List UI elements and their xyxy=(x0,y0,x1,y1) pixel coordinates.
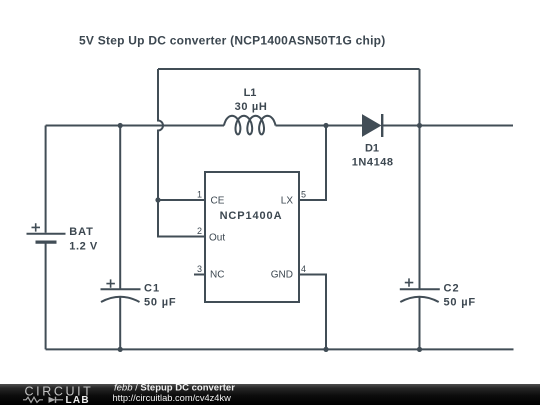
svg-text:C1: C1 xyxy=(144,283,160,295)
svg-text:CE: CE xyxy=(211,195,225,206)
svg-text:http://circuitlab.com/cv4z4kw: http://circuitlab.com/cv4z4kw xyxy=(113,393,232,403)
junction node: CE/Out tie point xyxy=(155,197,160,202)
wire: C2 bottom to ground rail xyxy=(419,297,421,349)
svg-text:50 µF: 50 µF xyxy=(144,297,176,309)
battery + polarity sign xyxy=(32,223,41,231)
wire: bottom ground rail xyxy=(46,348,514,350)
svg-text:D1: D1 xyxy=(365,143,379,155)
svg-text:50 µF: 50 µF xyxy=(444,297,476,309)
svg-text:GND: GND xyxy=(271,270,293,281)
wire: diode cathode to +5V output stub xyxy=(382,125,513,127)
svg-text:BAT: BAT xyxy=(69,226,93,238)
wire: GND pin 4 right then down to ground rail xyxy=(299,275,326,350)
wire: LX pin 5 up to inductor-diode node xyxy=(299,126,326,201)
svg-text:NCP1400A: NCP1400A xyxy=(220,210,283,222)
svg-text:LAB: LAB xyxy=(66,395,90,405)
wire: inductor to diode anode xyxy=(276,125,364,127)
svg-text:1.2 V: 1.2 V xyxy=(69,241,98,253)
svg-text:1: 1 xyxy=(197,189,202,199)
inductor L1 coil xyxy=(224,116,276,135)
junction node: inductor-LX node xyxy=(323,123,328,128)
svg-text:2: 2 xyxy=(197,226,202,236)
svg-text:LX: LX xyxy=(281,195,294,206)
wire: battery - plate down to ground rail xyxy=(45,243,47,349)
svg-text:L1: L1 xyxy=(244,87,257,99)
wire: C1 bottom to ground rail xyxy=(119,297,121,349)
wire: C1 branch from main wire down to C1 top plate xyxy=(119,126,121,290)
IC U1 NCP1400A body xyxy=(205,172,299,302)
IC pin 3 NC stub xyxy=(194,274,205,276)
svg-text:3: 3 xyxy=(197,264,202,274)
svg-text:Out: Out xyxy=(209,233,225,244)
battery BAT symbol plates xyxy=(27,234,66,242)
svg-text:4: 4 xyxy=(301,264,306,274)
logo resistor zigzag and diode motif xyxy=(23,397,63,403)
wire: left rail down from main wire to battery + plate xyxy=(45,126,47,233)
junction node: diode output node xyxy=(417,123,422,128)
svg-text:1N4148: 1N4148 xyxy=(352,157,394,169)
capacitor C2 + sign xyxy=(405,278,414,286)
wire: output node vertical down to C2 top plate (through diode node) xyxy=(419,69,421,289)
capacitor C1 plates xyxy=(101,289,141,302)
svg-text:30 µH: 30 µH xyxy=(235,101,268,113)
svg-text:5V Step Up DC converter (NCP14: 5V Step Up DC converter (NCP1400ASN50T1G… xyxy=(79,34,385,48)
wire: top feedback wire from node over IC to diode output node xyxy=(158,68,420,70)
diode D1 symbol xyxy=(363,114,383,137)
svg-text:5: 5 xyxy=(301,189,306,199)
capacitor C2 plates xyxy=(400,289,440,302)
junction node: C2 bottom on ground rail xyxy=(417,347,422,352)
footer bar xyxy=(0,384,540,405)
svg-text:NC: NC xyxy=(210,270,224,281)
capacitor C1 + sign xyxy=(106,279,115,287)
junction node: C1 bottom on ground rail xyxy=(118,347,123,352)
junction node: C1 top / main wire xyxy=(118,123,123,128)
wire: left vertical from top wire with hop over main wire down to CE/Out, then to Out pin 2 xyxy=(158,69,205,237)
wire: main horizontal wire battery to inductor xyxy=(46,125,224,127)
junction node: GND pin on ground rail xyxy=(323,347,328,352)
svg-text:C2: C2 xyxy=(444,283,460,295)
wire: branch from node to CE pin 1 xyxy=(158,199,205,201)
